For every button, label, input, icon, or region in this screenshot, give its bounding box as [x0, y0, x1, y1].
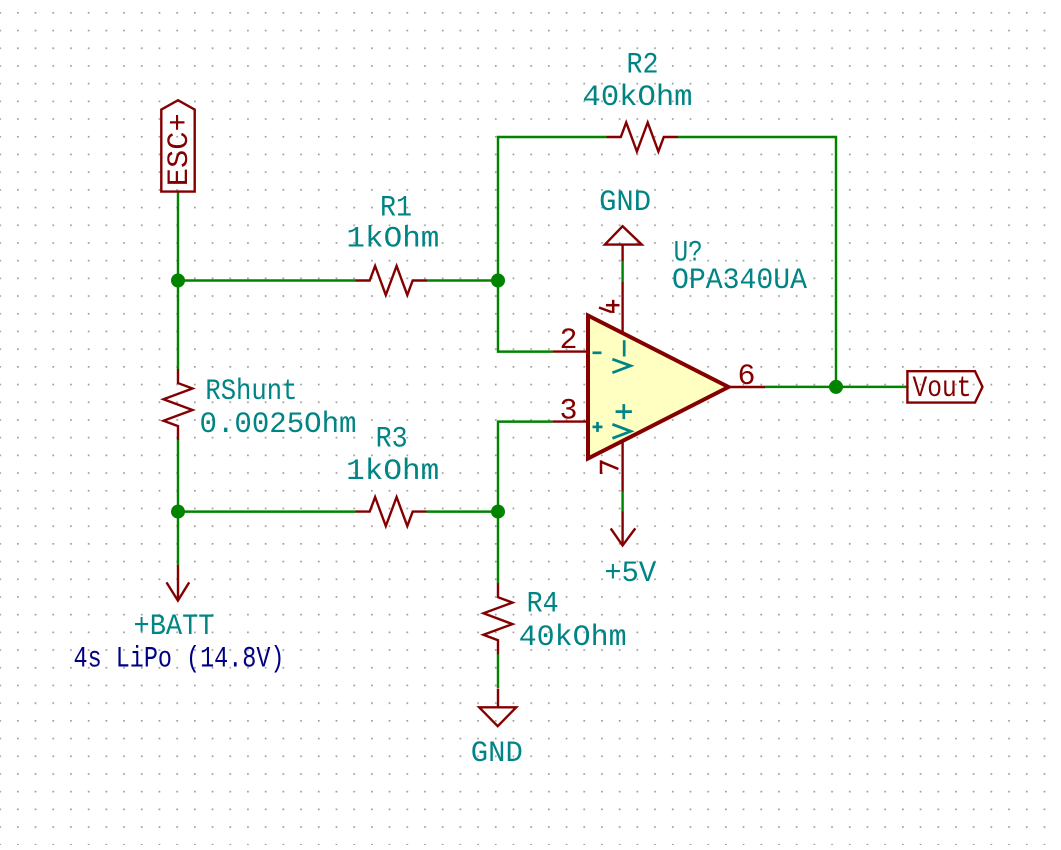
wire node B down to pin 2 [498, 281, 553, 352]
wire node D down to R4 [497, 512, 499, 584]
op-amp pin 4 name V- rotated [612, 340, 630, 373]
svg-text:40kOhm: 40kOhm [583, 81, 693, 115]
junction node D [491, 505, 505, 519]
svg-text:R2: R2 [627, 49, 659, 83]
wire R2 right down to output node [678, 137, 836, 387]
wire ESC+ to RShunt vertical [177, 192, 179, 370]
svg-text:3: 3 [559, 395, 577, 429]
resistor R3 [356, 497, 427, 526]
svg-text:ESC+: ESC+ [163, 113, 197, 186]
op-amp pin 3 stub [553, 420, 588, 422]
resistor RShunt [164, 369, 193, 440]
wire RShunt bottom to +BATT [177, 440, 179, 566]
wire GND top symbol to pin 4 [621, 262, 623, 282]
junction node B [491, 274, 505, 288]
svg-text:2: 2 [559, 324, 577, 358]
junction node A [171, 274, 185, 288]
wire pin 7 to +5V symbol [621, 492, 623, 512]
global label Vout outline [907, 371, 982, 402]
svg-text:R4: R4 [527, 587, 559, 621]
svg-text:R3: R3 [376, 423, 408, 457]
op-amp pin 7 name V+ rotated [612, 404, 632, 438]
svg-text:GND: GND [471, 737, 523, 771]
svg-text:1kOhm: 1kOhm [346, 223, 439, 257]
svg-text:+BATT: +BATT [134, 610, 215, 644]
ground bottom symbol [479, 689, 516, 727]
junction node C [171, 505, 185, 519]
pin number 7 (rotated digit drawn as strokes) [601, 460, 618, 474]
op-amp U1 body [588, 316, 729, 459]
svg-text:0.0025Ohm: 0.0025Ohm [200, 408, 357, 442]
wire R1 right to node B [427, 279, 498, 281]
global label ESC+ outline [161, 100, 194, 191]
wire node D up to pin 3 [498, 422, 553, 512]
svg-text:40kOhm: 40kOhm [519, 621, 627, 655]
wire node C to R3 left [178, 510, 356, 512]
op-amp non-inverting input plus mark [593, 422, 603, 432]
op-amp pin 6 stub [729, 386, 766, 388]
wire output node to Vout label [765, 386, 907, 388]
svg-text:OPA340UA: OPA340UA [672, 264, 807, 298]
wire node A to R1 left [178, 279, 356, 281]
op-amp pin 2 stub [553, 350, 588, 352]
pin number 4 (rotated digit drawn as strokes) [599, 300, 620, 313]
op-amp inverting input minus mark [593, 351, 602, 354]
svg-text:6: 6 [737, 360, 755, 394]
svg-text:+5V: +5V [604, 557, 656, 591]
svg-text:RShunt: RShunt [205, 375, 297, 409]
wire node B up to R2 left [498, 137, 607, 281]
op-amp pin 4 stub [621, 282, 623, 334]
junction output node [829, 380, 843, 394]
power +5V arrow [611, 512, 636, 546]
resistor R2 [607, 123, 679, 152]
ground top symbol [605, 226, 642, 262]
svg-text:Vout: Vout [913, 372, 972, 406]
svg-text:GND: GND [599, 186, 651, 220]
wire R3 right to node D [427, 510, 499, 512]
wire R4 bottom to GND [497, 654, 499, 688]
power +BATT arrow [167, 565, 190, 600]
svg-text:R1: R1 [380, 192, 412, 226]
resistor R1 [356, 266, 428, 295]
op-amp pin 7 stub [621, 441, 623, 492]
resistor R4 [484, 583, 513, 654]
svg-text:1kOhm: 1kOhm [346, 455, 439, 489]
svg-text:4s LiPo (14.8V): 4s LiPo (14.8V) [74, 643, 285, 677]
